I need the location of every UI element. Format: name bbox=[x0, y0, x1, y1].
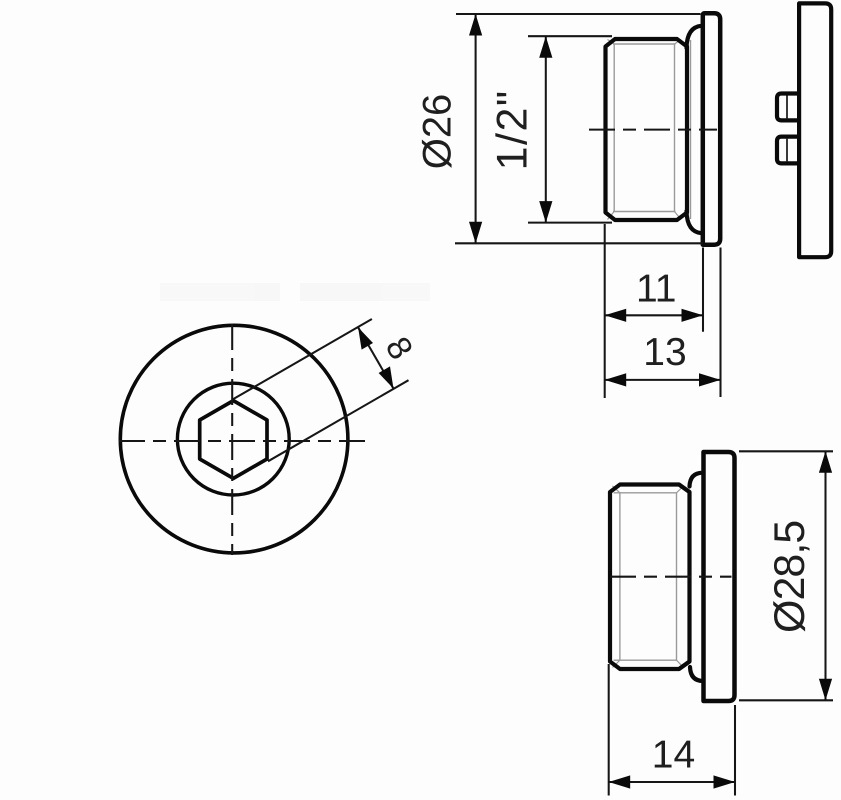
dimension 1/2": arrow down bbox=[539, 201, 552, 223]
thread corner tick bottom-right bottom view bbox=[677, 660, 684, 667]
dimension Ø26: top extension line bbox=[456, 13, 701, 15]
thread corner tick bottom-left bottom view bbox=[613, 660, 620, 667]
dimension 11: arrow right bbox=[682, 309, 704, 322]
edge view tab 2 bbox=[777, 137, 799, 164]
thread end line right (thin) bbox=[674, 44, 676, 212]
dimension 8: arrow to line1 bbox=[358, 327, 373, 349]
plug body outline (thread major) top view bbox=[606, 39, 688, 220]
dimension 13: arrow right bbox=[699, 373, 721, 386]
dimension Ø26: arrow down bbox=[469, 222, 482, 244]
dimension 14: right extension line bbox=[734, 705, 736, 796]
centerline bottom view (dashed) bbox=[610, 576, 732, 578]
dimension Ø26: bottom extension line bbox=[455, 242, 703, 244]
dimension Ø28,5: top extension line bbox=[739, 450, 833, 452]
edge view tab 2 inner line bbox=[786, 139, 788, 162]
thread minor line bottom, bottom view bbox=[614, 659, 677, 661]
dimension 8: arrow to line2 bbox=[379, 366, 394, 388]
centerline top view (dashed) bbox=[589, 129, 717, 131]
dimension Ø26: arrow up bbox=[469, 14, 482, 36]
dimension 8: extension line 1 bbox=[233, 319, 372, 400]
thread minor line top, bottom view bbox=[614, 492, 677, 494]
dimension Ø28,5: bottom extension line bbox=[739, 699, 833, 701]
hex socket front view bbox=[200, 401, 267, 479]
cone face line (thin) bbox=[690, 40, 692, 219]
plug body outline bottom view bbox=[610, 485, 690, 670]
svg-text:13: 13 bbox=[643, 331, 686, 374]
dimension 1/2": arrow up bbox=[539, 36, 552, 58]
centerline horizontal front view bbox=[119, 440, 366, 442]
neck fillet arc bottom, top view bbox=[687, 211, 702, 233]
dimension Ø28,5: arrow down bbox=[819, 679, 832, 701]
flange plate top view bbox=[703, 13, 720, 244]
dimension 1/2": dimension line bbox=[545, 36, 547, 222]
edge view tab 1 bbox=[777, 94, 799, 121]
thread corner tick bottom-left bbox=[608, 212, 615, 220]
edge view tab 1 inner line bbox=[786, 96, 788, 119]
dimension 11: arrow left bbox=[605, 309, 627, 322]
thread corner tick top-right bottom view bbox=[677, 486, 684, 493]
thread end line left, bottom view bbox=[619, 493, 621, 660]
centerline vertical front view bbox=[231, 324, 233, 555]
dimension 13: arrow left bbox=[605, 373, 627, 386]
flange plate bottom view bbox=[704, 452, 735, 701]
edge view plate bbox=[799, 3, 831, 257]
dimension 14: dimension line bbox=[609, 781, 735, 783]
dimension Ø26: dimension line bbox=[475, 14, 477, 243]
dimension 13: right extension line bbox=[719, 248, 721, 398]
svg-text:Ø26: Ø26 bbox=[415, 94, 459, 170]
neck fillet arc top, top view bbox=[687, 26, 702, 48]
dimension 11: left extension line (shared with 13) bbox=[604, 224, 606, 398]
dimension 14: left extension line bbox=[608, 664, 610, 796]
dimension 14: arrow right bbox=[714, 775, 736, 788]
thread end line right, bottom view bbox=[676, 493, 678, 660]
dimension 11: dimension line bbox=[605, 314, 703, 316]
dimension Ø28,5: arrow up bbox=[819, 451, 832, 473]
dimension 1/2": bottom extension line bbox=[528, 222, 612, 224]
dimension 13: dimension line bbox=[605, 379, 721, 381]
neck fillet arc bottom, bottom view bbox=[690, 667, 703, 681]
outer circle Ø26 front view bbox=[120, 325, 348, 553]
svg-text:14: 14 bbox=[652, 734, 695, 777]
thread end line left (thin) bbox=[613, 44, 615, 212]
dimension 11: right extension line bbox=[702, 248, 704, 332]
ghost watermark smudge left bbox=[160, 283, 430, 301]
svg-text:11: 11 bbox=[636, 268, 677, 311]
svg-text:Ø28,5: Ø28,5 bbox=[766, 521, 814, 633]
svg-text:8: 8 bbox=[378, 331, 420, 366]
dimension 14: arrow left bbox=[609, 775, 631, 788]
thread corner tick top-left bottom view bbox=[613, 486, 620, 493]
thread minor line bottom (thin) bbox=[613, 211, 676, 213]
thread corner tick bottom-right bbox=[675, 212, 682, 220]
dimension Ø28,5: dimension line bbox=[824, 451, 826, 700]
counterbore circle front view bbox=[177, 383, 289, 495]
thread minor line top (thin) bbox=[613, 43, 676, 45]
svg-text:1/2": 1/2" bbox=[489, 89, 537, 170]
dimension 8: extension line 2 bbox=[268, 380, 409, 461]
dimension 1/2": top extension line bbox=[528, 35, 612, 37]
neck fillet arc top, bottom view bbox=[690, 473, 703, 487]
thread corner tick top-left bbox=[608, 40, 615, 45]
thread corner tick top-right bbox=[675, 40, 682, 45]
dimension 8: dimension line bbox=[358, 327, 393, 388]
